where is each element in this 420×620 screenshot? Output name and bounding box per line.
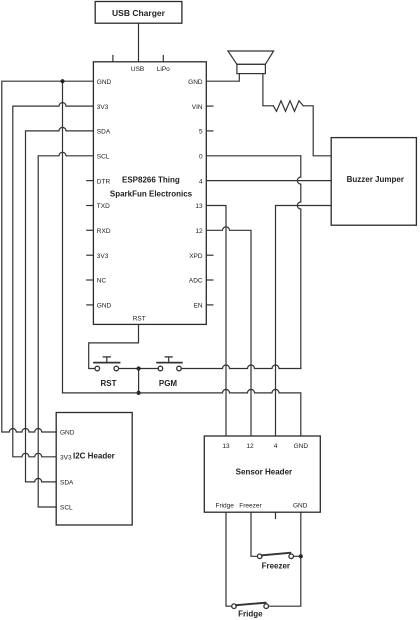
svg-text:XPD: XPD	[189, 253, 203, 260]
svg-text:4: 4	[274, 443, 278, 450]
pin stub: chip left DTR	[87, 180, 94, 182]
svg-text:GND: GND	[60, 430, 75, 437]
wire: resistor to buzzer jumper pin 1	[303, 106, 331, 156]
wire: sensor Freezer pin down to freezer switch	[251, 512, 257, 556]
pin stub: chip right ADC	[206, 279, 213, 281]
wire: chip 3V3 pin to I2C 3V3	[13, 103, 94, 457]
svg-text:DTR: DTR	[97, 178, 111, 185]
svg-text:SDA: SDA	[60, 479, 74, 486]
pin stub: chip left NC	[87, 279, 94, 281]
svg-text:4: 4	[199, 178, 203, 185]
wire: chip pin 13 down to sensor header 13	[206, 206, 226, 437]
wire: vertical x=300.8 from pin 0 down to PGM button (hops right over two wires)	[297, 156, 301, 369]
pushbutton S2 PGM	[157, 357, 182, 371]
ESP8266 Thing U1	[93, 62, 206, 325]
pin stub: chip right EN	[206, 304, 213, 306]
switch SW1 Freezer	[257, 553, 300, 559]
svg-text:USB: USB	[131, 66, 144, 73]
svg-text:LiPo: LiPo	[157, 66, 170, 73]
junction: ground rail dot	[137, 391, 141, 395]
junction: GND node dot	[60, 79, 64, 83]
switch SW2 Fridge	[232, 603, 269, 609]
wire: chip left GND pin to far-left vertical down to I2C GND	[2, 81, 94, 432]
svg-text:SCL: SCL	[97, 154, 110, 161]
svg-text:ADC: ADC	[189, 278, 203, 285]
svg-text:PGM: PGM	[159, 379, 178, 388]
svg-text:GND: GND	[294, 443, 309, 450]
junction: button common node dot	[137, 366, 141, 370]
wire: chip pin 12 down to sensor header 12 (hop over x=226)	[206, 227, 251, 436]
svg-text:13: 13	[222, 443, 230, 450]
pin stub: chip left TXD	[87, 205, 94, 207]
svg-text:GND: GND	[293, 503, 308, 510]
wire: sensor Fridge pin down to fridge switch	[226, 512, 232, 606]
wire: chip pin 0 to vertical at x=300.8	[206, 155, 300, 157]
svg-text:Buzzer Jumper: Buzzer Jumper	[347, 175, 404, 184]
svg-text:12: 12	[246, 443, 254, 450]
svg-text:SCL: SCL	[60, 505, 73, 512]
wire: chip SDA pin to I2C SDA	[26, 127, 94, 482]
wire: PGM button right to chip pin 0 vertical (hops over three verticals)	[181, 365, 300, 368]
pin stub: chip top unlabeled	[112, 56, 114, 62]
svg-text:Freezer: Freezer	[239, 503, 262, 510]
svg-text:0: 0	[199, 154, 203, 161]
svg-text:GND: GND	[188, 79, 203, 86]
svg-text:ESP8266 Thing: ESP8266 Thing	[122, 175, 180, 184]
wire: chip pin 4 to buzzer jumper pin 2	[206, 180, 331, 182]
svg-text:SparkFun Electronics: SparkFun Electronics	[110, 189, 193, 198]
sensor header J4	[204, 436, 320, 512]
pushbutton S1 RST	[94, 357, 120, 371]
svg-text:Sensor Header: Sensor Header	[236, 468, 292, 477]
svg-text:RST: RST	[133, 316, 146, 323]
svg-text:SDA: SDA	[97, 129, 111, 136]
svg-text:3V3: 3V3	[97, 253, 109, 260]
pin stub: sensor bottom unused	[275, 512, 277, 519]
resistor R1	[273, 101, 303, 112]
svg-text:RXD: RXD	[97, 228, 111, 235]
speaker LS1	[228, 51, 274, 64]
pin stub: chip right XPD	[206, 254, 213, 256]
wire: buzzer jumper pin 3 down to sensor header 4	[276, 206, 332, 437]
pin stub: chip left 3V3b	[87, 254, 94, 256]
wire: chip right GND pin to speaker left lead	[206, 74, 239, 82]
buzzer jumper header J2	[331, 138, 416, 226]
svg-text:Fridge: Fridge	[215, 503, 234, 510]
svg-text:RST: RST	[101, 379, 117, 388]
pin stub: chip left RXD	[87, 229, 94, 231]
svg-text:USB Charger: USB Charger	[112, 8, 166, 18]
wire: speaker right lead to resistor	[263, 74, 273, 106]
svg-text:TXD: TXD	[97, 203, 110, 210]
wire: chip RST pin to RST button left terminal	[89, 324, 139, 368]
svg-text:NC: NC	[97, 278, 107, 285]
wire: RST button to PGM button with ground tap	[119, 368, 159, 370]
svg-text:12: 12	[195, 228, 203, 235]
wire: ground rail to sensor header GND (hops over three verticals)	[63, 389, 301, 436]
pin stub: chip right VIN	[206, 105, 213, 107]
svg-text:13: 13	[195, 203, 203, 210]
svg-text:GND: GND	[97, 303, 112, 310]
pin stub: chip top LiPo	[162, 56, 164, 62]
wire: USB charger to chip USB pin	[138, 23, 140, 62]
svg-text:I2C Header: I2C Header	[73, 451, 115, 460]
svg-text:GND: GND	[97, 79, 112, 86]
svg-text:3V3: 3V3	[97, 104, 109, 111]
pin stub: chip left GNDb	[87, 304, 94, 306]
USB charger module J1	[95, 2, 182, 24]
pin stub: chip right 5	[206, 130, 213, 132]
svg-text:Freezer: Freezer	[262, 562, 290, 571]
svg-text:3V3: 3V3	[60, 454, 72, 461]
svg-text:VIN: VIN	[192, 104, 203, 111]
wire: sensor GND pin down through freezer node to fridge switch	[269, 512, 301, 606]
wire: button node down to ground rail	[138, 369, 140, 393]
wire: chip SCL pin to I2C SCL	[38, 152, 93, 507]
svg-text:Fridge: Fridge	[238, 610, 263, 619]
svg-text:EN: EN	[194, 303, 203, 310]
junction: freezer-GND node dot	[299, 554, 303, 558]
I2C header J3	[56, 413, 132, 526]
wire: chip GND junction down to button ground rail	[62, 81, 64, 393]
svg-text:5: 5	[199, 129, 203, 136]
